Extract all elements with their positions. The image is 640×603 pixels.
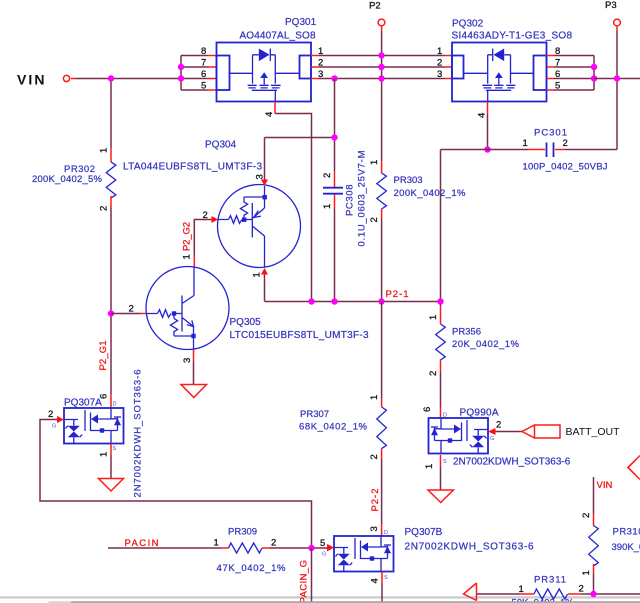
svg-text:P2-1: P2-1 [386, 289, 409, 300]
svg-text:SI4463ADY-T1-GE3_SO8: SI4463ADY-T1-GE3_SO8 [452, 31, 573, 42]
svg-text:1: 1 [322, 204, 333, 209]
pin stub PQ990A pin6 [440, 407, 442, 418]
ground under PQ307A [99, 479, 124, 492]
wire PC308 branch drop [334, 79, 336, 172]
svg-text:2: 2 [563, 138, 568, 149]
wire PQ307A pin2 L-path to PACIN junction [40, 420, 312, 549]
junction dot P3/VIN row [614, 75, 620, 81]
connector P2 open-circle [378, 19, 385, 26]
svg-text:390K_0402_1%: 390K_0402_1% [612, 542, 640, 553]
wire PQ301 pin4 to P2-1 drop [275, 114, 312, 302]
pin stub PQ305 pin1 [193, 255, 195, 267]
svg-text:PC308: PC308 [345, 185, 356, 217]
svg-text:S: S [384, 575, 388, 581]
junction dot bottom right [590, 591, 596, 597]
svg-text:2: 2 [369, 454, 380, 459]
pin arrow PQ307B pin5 [327, 544, 334, 552]
svg-text:2N7002KDWH_SOT363-6: 2N7002KDWH_SOT363-6 [453, 457, 571, 468]
svg-text:PR356: PR356 [452, 327, 481, 338]
svg-text:VIN: VIN [597, 480, 613, 491]
svg-text:1: 1 [369, 160, 380, 165]
svg-text:2N7002KDWH_SOT363-6: 2N7002KDWH_SOT363-6 [405, 542, 534, 553]
junction dot PACIN_G [308, 545, 314, 551]
connector P3 open-circle [614, 19, 621, 26]
wire PC301 left drop to PR356 [440, 150, 442, 307]
PQ304 internals [218, 186, 265, 267]
capacitor PC308 [334, 172, 336, 187]
svg-text:1: 1 [369, 395, 380, 400]
svg-text:1: 1 [428, 315, 439, 320]
svg-text:D: D [113, 402, 117, 408]
wire PQ307A pin1 to ground [110, 455, 112, 479]
svg-text:2: 2 [428, 371, 439, 376]
svg-text:3: 3 [369, 526, 380, 531]
svg-text:1: 1 [99, 148, 110, 153]
svg-text:S: S [113, 446, 117, 452]
svg-text:1: 1 [99, 452, 110, 457]
svg-text:2: 2 [129, 304, 134, 315]
svg-text:4: 4 [264, 112, 275, 117]
wire PQ304 pin3 riser [265, 138, 335, 181]
svg-text:P2_G2: P2_G2 [182, 222, 193, 251]
wire VIN row to right edge [594, 78, 640, 80]
wire P3 riser to PC301 [616, 27, 618, 31]
svg-text:5: 5 [201, 81, 206, 92]
wire left rail down from VIN row [110, 79, 112, 149]
svg-text:1: 1 [424, 464, 435, 469]
pin stub PQ307B pin4 [381, 572, 383, 584]
wire PACIN_G drop [311, 548, 313, 603]
svg-text:PQ302: PQ302 [452, 19, 484, 30]
svg-text:2: 2 [496, 420, 501, 431]
svg-text:4: 4 [370, 578, 381, 583]
svg-text:2N7002KDWH_SOT363-6: 2N7002KDWH_SOT363-6 [133, 370, 144, 498]
svg-text:3: 3 [255, 174, 266, 179]
junction dot at VIN/rail [108, 75, 114, 81]
pin arrow PQ307A pin2 [57, 416, 64, 423]
svg-text:20K_0402_1%: 20K_0402_1% [452, 339, 520, 350]
junction dot PC308 branch [331, 75, 337, 81]
svg-text:1: 1 [214, 538, 219, 549]
svg-text:LTC015EUBFS8TL_UMT3F-3: LTC015EUBFS8TL_UMT3F-3 [230, 330, 369, 341]
wire PR311 to VIN riser [582, 593, 640, 595]
wire PQ305 pin3 to ground [193, 361, 195, 385]
pin stub PQ305 pin3 [193, 350, 195, 362]
svg-text:PACIN: PACIN [125, 538, 159, 549]
pin stub PQ305 pin2 [111, 313, 140, 315]
transistor PQ307B [334, 536, 394, 572]
resistor PR309 [221, 547, 229, 549]
resistor PR311 [520, 593, 534, 595]
junction dot pin4/PC301 row [484, 146, 490, 152]
svg-text:PQ307A: PQ307A [64, 398, 102, 409]
svg-text:PQ307B: PQ307B [405, 527, 443, 538]
svg-text:2: 2 [271, 538, 276, 549]
pin stub PQ307A pin6 [110, 394, 112, 408]
svg-text:PQ301: PQ301 [285, 17, 317, 28]
svg-text:1: 1 [523, 138, 528, 149]
wire VIN stub down [593, 477, 595, 514]
svg-text:1: 1 [581, 570, 592, 575]
wire bottom row [477, 593, 521, 595]
svg-text:G: G [490, 436, 494, 442]
svg-text:3: 3 [437, 69, 442, 80]
junction dot PC308/pin3 riser [331, 134, 337, 140]
svg-text:2: 2 [581, 513, 592, 518]
svg-text:D: D [384, 530, 388, 536]
svg-text:G: G [322, 552, 326, 558]
resistor PR310 [593, 514, 595, 526]
svg-text:6: 6 [422, 407, 433, 412]
svg-text:P3: P3 [605, 0, 617, 11]
svg-text:P2_G1: P2_G1 [98, 341, 109, 371]
wire VIN row to bus bar [71, 78, 76, 80]
pin arrow PQ304 pin2 [212, 216, 219, 223]
wire PQ990A pin2 to BATT_OUT [496, 431, 523, 433]
wire PC308 to P2-1 rail [334, 209, 336, 302]
connector VIN open-circle [63, 75, 69, 81]
pin stubs PQ301 right pins 1,2,3 [311, 56, 319, 79]
wire PR303 to P2-1 rail [381, 219, 383, 302]
resistor PR303 [381, 161, 383, 173]
wire PQ304 pin2 to PQ305 pin1 [194, 220, 211, 256]
wire PACIN row [108, 547, 221, 549]
PQ305 internals [146, 267, 194, 350]
svg-text:3: 3 [182, 358, 193, 363]
svg-text:G: G [52, 424, 56, 430]
svg-text:2: 2 [322, 173, 333, 178]
pin arrow PQ990A pin2 [488, 428, 496, 435]
junction dots on left bus bar [178, 64, 184, 70]
junction dots on P2 riser [378, 52, 384, 58]
svg-text:47K_0402_1%: 47K_0402_1% [217, 563, 287, 574]
junction dot rail/PQ305 base [108, 310, 114, 316]
bottom scrollbar thumb [49, 601, 72, 603]
junction dots right bus bar [591, 64, 597, 70]
resistor PR302 [110, 149, 112, 162]
pin stubs PQ302 left pins 1,2,3 [445, 56, 452, 79]
wire bus bar right of PQ302 [554, 56, 594, 91]
svg-text:2: 2 [48, 409, 53, 420]
wire PR310 to bottom row [593, 574, 595, 595]
svg-text:7: 7 [201, 58, 206, 69]
pin arrow PQ304 pin1 [261, 268, 268, 275]
pin stubs PQ301 left pins 8,7,6,5 [208, 56, 217, 91]
pin stub PQ301 pin 4 [274, 102, 276, 114]
svg-text:1: 1 [252, 272, 263, 277]
svg-text:P2-2: P2-2 [370, 489, 381, 512]
mosfet PQ302 [452, 43, 547, 102]
capacitor PC301 [528, 149, 565, 151]
wire PQ302 pin4 to PC301 row [487, 114, 489, 150]
wire P2 riser [381, 27, 383, 31]
resistor PR307 [381, 302, 383, 399]
svg-text:PC301: PC301 [534, 128, 567, 139]
svg-text:0.1U_0603_25V7-M: 0.1U_0603_25V7-M [357, 150, 368, 246]
pin stub PQ307A pin1 [110, 444, 112, 456]
svg-text:200K_0402_5%: 200K_0402_5% [32, 174, 103, 185]
svg-text:PR311: PR311 [534, 575, 566, 586]
wire PQ304 pin1 to P2-1 rail [264, 275, 266, 302]
svg-text:VIN: VIN [17, 72, 45, 88]
ground under PQ305 [181, 385, 207, 398]
offpage connector BATT_OUT [522, 425, 535, 438]
svg-text:2: 2 [579, 584, 584, 595]
wire rows PQ301 to PQ302 [319, 56, 445, 79]
svg-text:8: 8 [201, 46, 206, 57]
svg-text:1: 1 [182, 254, 193, 259]
svg-text:100P_0402_50VBJ: 100P_0402_50VBJ [523, 162, 608, 173]
svg-text:PQ304: PQ304 [205, 140, 237, 151]
wire P2-1 rail [265, 301, 441, 303]
resistor PR356 [440, 306, 442, 324]
svg-text:LTA044EUBFS8TL_UMT3F-3: LTA044EUBFS8TL_UMT3F-3 [123, 162, 262, 173]
svg-text:200K_0402_1%: 200K_0402_1% [394, 188, 467, 199]
svg-text:P2: P2 [369, 1, 381, 12]
wire PQ990A pin1 to ground [440, 467, 442, 490]
svg-text:AO4407AL_SO8: AO4407AL_SO8 [240, 31, 316, 42]
wire left rail PR302 to PQ305 row [110, 207, 112, 394]
wire PR307 to PQ307B pin3 [381, 459, 383, 524]
svg-text:6: 6 [201, 69, 206, 80]
svg-text:PR307: PR307 [300, 409, 329, 420]
wire PR309 to PQ307B pin5 [270, 547, 327, 549]
pin arrow PQ304 pin3 [261, 180, 268, 187]
svg-text:1: 1 [437, 46, 442, 57]
pin stub PQ990A pin1 [440, 455, 442, 467]
svg-text:PR309: PR309 [228, 527, 257, 538]
svg-text:2: 2 [99, 206, 110, 211]
svg-text:PR303: PR303 [394, 175, 423, 186]
svg-text:1: 1 [519, 584, 524, 595]
svg-text:BATT_OUT: BATT_OUT [566, 426, 621, 438]
ground under PQ990A [428, 490, 454, 503]
wire PC301 row [441, 149, 618, 151]
wire PQ307B pin4 down [381, 584, 383, 603]
svg-text:PR310: PR310 [613, 527, 640, 538]
svg-text:PQ990A: PQ990A [460, 408, 499, 419]
bottom window chrome band [0, 596, 640, 598]
offpage connector diamond (right edge) [628, 456, 640, 480]
mosfet PQ301 [217, 43, 312, 102]
wire bus bar left of PQ301 [181, 56, 208, 91]
wire PR356 to PQ990A pin6 [440, 372, 442, 407]
pin stubs PQ302 right pins 8,7,6,5 [547, 56, 555, 91]
svg-text:PQ305: PQ305 [230, 317, 262, 328]
svg-text:2: 2 [437, 58, 442, 69]
pin stub PQ307B pin3 [381, 524, 383, 536]
svg-text:2: 2 [369, 217, 380, 222]
pin stub PQ302 pin 4 [487, 102, 489, 115]
offpage connector arrow (bottom left) [464, 583, 477, 601]
svg-text:68K_0402_1%: 68K_0402_1% [299, 422, 368, 433]
svg-text:S: S [443, 459, 447, 465]
svg-text:PACIN_G: PACIN_G [299, 560, 310, 603]
svg-text:4: 4 [477, 113, 488, 118]
